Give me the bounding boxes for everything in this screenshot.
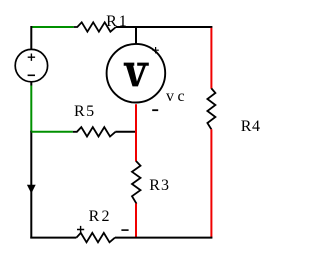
wire: voltmeter top stub xyxy=(135,26,137,44)
wire: top black segment to top-right corner xyxy=(116,26,212,28)
wire: voltmeter bottom to R3 (red) xyxy=(135,104,137,161)
plus mark xyxy=(77,226,84,233)
svg-text:vc: vc xyxy=(166,88,188,105)
voltmeter U1 xyxy=(107,44,189,110)
wire: source bottom stub (black) xyxy=(30,82,32,86)
minus mark xyxy=(121,229,128,231)
resistor R5 xyxy=(73,103,116,137)
wire: R4 to bottom (red) xyxy=(210,129,212,237)
wire: mid horizontal green segment xyxy=(31,131,73,133)
wire: bottom horizontal xyxy=(30,237,76,239)
wire: R3 to bottom (red) xyxy=(135,203,137,238)
svg-text:R5: R5 xyxy=(74,103,96,120)
wire: left vertical top (corner to source) xyxy=(30,26,32,50)
wire: top-left green segment xyxy=(32,26,74,28)
wire: mid horizontal black segment xyxy=(115,131,137,133)
wire: source to mid junction (green) xyxy=(30,86,32,133)
wire: right vertical top (red) xyxy=(210,28,212,89)
plus mark xyxy=(152,47,158,53)
svg-text:R4: R4 xyxy=(241,118,261,135)
resistor R2 xyxy=(76,208,128,243)
minus mark xyxy=(152,109,158,111)
resistor R3 xyxy=(132,161,170,204)
letter V xyxy=(124,63,149,87)
resistor R4 xyxy=(207,88,260,134)
voltage source V1 xyxy=(15,49,47,81)
wire: bottom horizontal right of R2 xyxy=(115,237,212,239)
svg-text:R3: R3 xyxy=(149,177,170,194)
svg-text:R2: R2 xyxy=(89,208,112,225)
resistor R1 xyxy=(74,13,129,31)
wire: left vertical bottom with current arrow xyxy=(27,131,35,239)
